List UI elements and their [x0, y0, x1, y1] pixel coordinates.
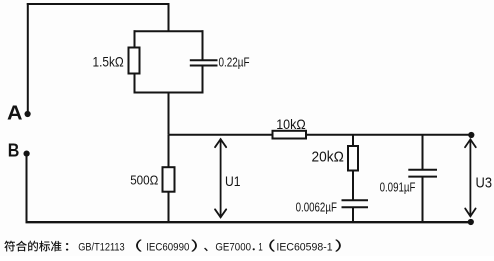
bottom text glyph 符 — [4, 241, 15, 252]
resistor R4 20k body — [348, 146, 358, 171]
svg-text:U1: U1 — [225, 173, 241, 189]
svg-text:20kΩ: 20kΩ — [312, 149, 344, 166]
bottom text glyph 标 — [39, 241, 50, 252]
svg-text:0.0062µF: 0.0062µF — [296, 200, 337, 215]
bottom text glyph ： — [66, 243, 68, 251]
wire top rail — [27, 3, 170, 5]
resistor R3 10k body — [273, 131, 307, 139]
wire middle node down to 500ohm resistor — [168, 135, 170, 168]
wire 0.091 branch bottom — [422, 177, 424, 222]
wire loop right lower (from C1) — [202, 66, 204, 94]
wire bottom rail — [26, 221, 471, 223]
wire middle rail right of 10k — [306, 134, 469, 136]
capacitor C3 0.091uF plates — [408, 169, 437, 171]
wire loop left lower (from R1) — [134, 74, 136, 94]
voltage arrow U1 — [215, 139, 226, 217]
resistor R2 500 body — [163, 167, 175, 192]
svg-text:GB/T12113: GB/T12113 — [78, 242, 125, 254]
wire middle rail left of 10k — [169, 134, 273, 136]
wire terminal B down to bottom rail — [26, 154, 28, 222]
svg-text:IEC60598-1: IEC60598-1 — [276, 242, 332, 254]
wire loop left upper (to R1) — [134, 30, 136, 47]
wire 500ohm resistor to bottom rail — [168, 192, 170, 222]
voltage arrow U3 — [465, 139, 476, 216]
bottom text glyph （ #2 — [269, 239, 275, 251]
svg-text:10kΩ: 10kΩ — [276, 117, 306, 132]
svg-text:U3: U3 — [476, 174, 493, 191]
node dot right bottom — [468, 219, 474, 225]
wire from top rail down to parallel-loop top — [168, 3, 170, 31]
wire loop bottom to middle node — [168, 93, 170, 135]
bottom text glyph （ #1 — [136, 239, 142, 251]
wire 0.091 branch top — [422, 135, 424, 170]
bottom text glyph 、 — [204, 248, 208, 252]
wire 20k branch top — [352, 135, 354, 146]
bottom text glyph 准 — [51, 241, 62, 252]
svg-text:IEC60990: IEC60990 — [146, 242, 189, 254]
svg-text:500Ω: 500Ω — [130, 173, 158, 188]
wire terminal A up to top rail — [27, 3, 29, 114]
capacitor C2 0.0062uF plates — [342, 199, 369, 201]
svg-text:1.5kΩ: 1.5kΩ — [93, 53, 124, 69]
wire loop top — [134, 30, 204, 32]
bottom text glyph ） #1 — [191, 239, 197, 251]
svg-text:0.22µF: 0.22µF — [219, 54, 250, 69]
wire loop right upper (to C1) — [202, 30, 204, 60]
capacitor C1 0.22uF plates — [190, 59, 218, 61]
resistor R1 1.5k body — [129, 48, 140, 74]
wire loop bottom — [134, 92, 204, 94]
node dot right top — [468, 132, 474, 138]
node dot terminal B — [24, 151, 30, 157]
bottom text glyph ． — [253, 248, 255, 250]
bottom text glyph ） #2 — [335, 239, 341, 251]
wire 20k to cap 0.0062 — [352, 171, 354, 200]
svg-text:0.091µF: 0.091µF — [380, 180, 416, 195]
svg-text:B: B — [8, 140, 20, 160]
svg-text:GE7000: GE7000 — [215, 242, 251, 254]
bottom text glyph 的 — [28, 241, 38, 252]
wire cap 0.0062 to bottom rail — [352, 208, 354, 223]
svg-text:1: 1 — [258, 242, 263, 254]
svg-text:A: A — [7, 102, 23, 124]
bottom text glyph 合 — [16, 241, 27, 252]
node dot terminal A — [25, 111, 31, 117]
